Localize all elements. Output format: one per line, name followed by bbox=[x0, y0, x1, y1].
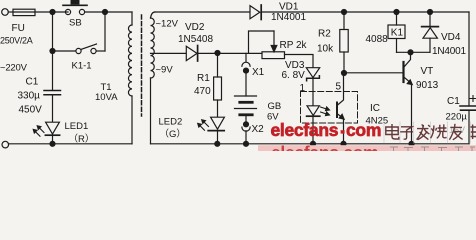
wire left column down bbox=[52, 12, 54, 90]
transformer T1 primary winding bbox=[131, 12, 133, 25]
terminal X2 bbox=[245, 115, 247, 125]
fuse FU bbox=[13, 9, 35, 15]
relay contact K1-1 bbox=[76, 48, 81, 53]
svg-text:X1: X1 bbox=[252, 67, 265, 78]
relay coil K1 bbox=[396, 12, 398, 25]
svg-text:1: 1 bbox=[300, 83, 306, 94]
junction opto led rail bbox=[311, 141, 316, 146]
capacitor C1 330u 450V bbox=[44, 90, 61, 92]
right edge column and capacitor C1 220u bbox=[468, 12, 470, 106]
svg-text:K1: K1 bbox=[391, 28, 404, 39]
terminal X1 bbox=[245, 53, 247, 62]
svg-text:GB: GB bbox=[268, 101, 282, 112]
transformer T1 secondary winding bbox=[151, 12, 156, 18]
diode VD4 1N4001 bbox=[429, 12, 431, 27]
junction VT emitter rail bbox=[409, 141, 414, 146]
watermark chinese chars 电子发烧友 bbox=[384, 122, 476, 144]
svg-text:SB: SB bbox=[69, 18, 82, 29]
svg-text:1N4001: 1N4001 bbox=[271, 12, 306, 23]
partial char right edge bbox=[470, 125, 476, 140]
svg-text:~12V: ~12V bbox=[156, 19, 179, 30]
bottom-left mains rail bbox=[8, 143, 132, 145]
wire bbox=[85, 11, 132, 13]
char fa bbox=[417, 124, 430, 139]
svg-text:（G）: （G） bbox=[160, 128, 186, 140]
opto LED arrows bbox=[321, 107, 330, 111]
battery GB 6V bbox=[245, 71, 247, 96]
node A junction bbox=[50, 10, 55, 15]
junction base node bbox=[342, 71, 347, 76]
junction LED2 rail bbox=[215, 141, 220, 146]
opto IC 4N25 dashed box bbox=[301, 92, 358, 124]
node B junction bbox=[103, 10, 108, 15]
junction K1 top bbox=[394, 10, 399, 15]
resistor R1 470 bbox=[217, 53, 219, 77]
svg-text:1N4001: 1N4001 bbox=[432, 46, 466, 57]
watermark elecfans.com bbox=[271, 120, 382, 140]
wire pot right bbox=[285, 55, 314, 68]
svg-text:K1-1: K1-1 bbox=[72, 61, 92, 72]
wire base bbox=[344, 72, 403, 74]
LED2 (G) bbox=[211, 117, 225, 129]
svg-text:VD2: VD2 bbox=[185, 22, 205, 33]
opto LED bbox=[307, 106, 319, 116]
wire bbox=[198, 52, 262, 54]
char zi bbox=[400, 127, 413, 139]
wire pin1 bbox=[312, 78, 314, 106]
svg-text:IC: IC bbox=[370, 103, 380, 114]
junction R2 top bbox=[342, 10, 347, 15]
char you bbox=[449, 124, 462, 140]
wire bbox=[8, 11, 13, 13]
wire bbox=[52, 95, 54, 122]
wire bbox=[262, 11, 469, 13]
svg-text:9013: 9013 bbox=[416, 80, 439, 91]
wire bbox=[217, 131, 219, 144]
node junction K1-1 left bbox=[50, 49, 55, 54]
junction VD4 top bbox=[428, 10, 433, 15]
junction X2 rail bbox=[244, 141, 249, 146]
zener VD3 6.8V bbox=[306, 68, 319, 78]
svg-text:4088: 4088 bbox=[366, 34, 389, 45]
junction R1 top bbox=[215, 51, 220, 56]
svg-text:6. 8V: 6. 8V bbox=[282, 70, 306, 81]
top rail secondary side bbox=[155, 11, 251, 13]
wire 9V tap bbox=[151, 52, 187, 54]
pushbutton SB bbox=[65, 9, 70, 14]
watermark grid lines bbox=[384, 122, 471, 144]
svg-text:R1: R1 bbox=[197, 73, 210, 84]
svg-text:10VA: 10VA bbox=[95, 92, 118, 103]
wire bbox=[96, 50, 105, 52]
wire bbox=[104, 12, 106, 51]
potentiometer RP 2k bbox=[262, 52, 285, 59]
svg-text:RP 2k: RP 2k bbox=[280, 40, 308, 51]
diode VD1 1N4001 bbox=[250, 6, 260, 19]
transformer core bbox=[141, 15, 143, 116]
watermark bottom pink band bbox=[258, 145, 476, 151]
svg-text:C1: C1 bbox=[26, 77, 39, 88]
svg-text:220µ: 220µ bbox=[446, 112, 468, 123]
terminal bottom-left bbox=[2, 141, 9, 148]
LED1 (R) bbox=[46, 122, 60, 134]
svg-text:470: 470 bbox=[194, 86, 211, 97]
svg-text:LED2: LED2 bbox=[159, 117, 183, 128]
opto phototransistor bbox=[336, 103, 338, 118]
svg-text:X2: X2 bbox=[252, 124, 265, 135]
wire bbox=[35, 11, 68, 13]
svg-text:10k: 10k bbox=[317, 44, 334, 55]
junction LED1 to rail bbox=[50, 141, 55, 146]
svg-text:（R）: （R） bbox=[69, 133, 95, 145]
junction collector node bbox=[408, 50, 413, 55]
diode VD2 1N5408 bbox=[186, 46, 197, 60]
svg-text:VT: VT bbox=[421, 66, 434, 77]
svg-text:FU: FU bbox=[12, 23, 25, 34]
bottom rail secondary side bbox=[151, 143, 470, 145]
svg-text:LED1: LED1 bbox=[65, 121, 89, 132]
svg-text:450V: 450V bbox=[19, 105, 43, 116]
char shao bbox=[431, 124, 447, 138]
svg-text:VD4: VD4 bbox=[441, 32, 461, 43]
svg-text:R2: R2 bbox=[318, 29, 331, 40]
char dian bbox=[386, 124, 399, 139]
plus sign bbox=[470, 96, 476, 102]
terminal top-left mains input bbox=[2, 9, 9, 16]
svg-text:VD1: VD1 bbox=[279, 2, 299, 13]
resistor R2 10k bbox=[343, 12, 345, 30]
svg-text:~220V: ~220V bbox=[0, 63, 28, 74]
svg-text:~9V: ~9V bbox=[156, 65, 174, 76]
svg-text:5: 5 bbox=[336, 82, 342, 93]
svg-text:250V/2A: 250V/2A bbox=[0, 36, 33, 46]
wire bbox=[53, 50, 76, 52]
svg-text:C1: C1 bbox=[447, 96, 460, 107]
svg-text:elecfans com: elecfans com bbox=[271, 142, 378, 151]
svg-text:330µ: 330µ bbox=[18, 91, 41, 102]
svg-text:16V: 16V bbox=[449, 125, 465, 135]
svg-text:com: com bbox=[346, 120, 381, 140]
junction opto emitter rail bbox=[341, 141, 346, 146]
wire bbox=[52, 135, 54, 144]
transistor VT 9013 bbox=[402, 62, 404, 82]
svg-text:1N5408: 1N5408 bbox=[178, 34, 213, 45]
svg-text:elecfans: elecfans bbox=[271, 120, 339, 140]
